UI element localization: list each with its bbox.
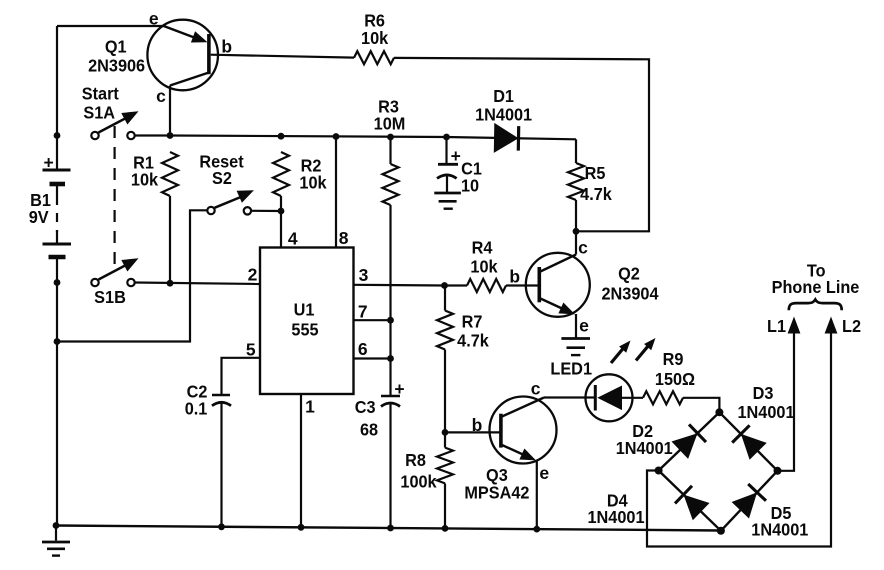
svg-text:1N4001: 1N4001 (475, 104, 532, 124)
svg-text:9V: 9V (29, 207, 49, 227)
svg-text:+: + (394, 379, 404, 399)
svg-text:0.1: 0.1 (185, 398, 208, 418)
svg-text:R4: R4 (472, 237, 493, 257)
svg-text:Q1: Q1 (105, 37, 127, 57)
svg-text:b: b (221, 37, 232, 57)
svg-text:7: 7 (358, 301, 368, 321)
svg-text:5: 5 (246, 340, 256, 360)
svg-text:S2: S2 (212, 168, 232, 188)
svg-text:e: e (579, 315, 589, 335)
svg-text:100k: 100k (400, 471, 436, 491)
svg-text:6: 6 (358, 339, 368, 359)
svg-text:555: 555 (291, 320, 318, 340)
svg-text:68: 68 (360, 419, 378, 439)
svg-text:10k: 10k (299, 172, 326, 192)
svg-text:L2: L2 (842, 316, 861, 336)
svg-text:S1B: S1B (94, 287, 126, 307)
svg-text:1N4001: 1N4001 (738, 402, 795, 422)
svg-text:R9: R9 (663, 349, 684, 369)
svg-text:2N3906: 2N3906 (88, 56, 145, 76)
svg-text:R8: R8 (405, 450, 426, 470)
svg-text:C3: C3 (355, 397, 376, 417)
svg-text:1N4001: 1N4001 (751, 520, 808, 540)
svg-text:S1A: S1A (83, 102, 115, 122)
svg-text:c: c (531, 378, 541, 398)
svg-text:4.7k: 4.7k (580, 184, 612, 204)
svg-text:D3: D3 (753, 383, 774, 403)
svg-text:10k: 10k (361, 28, 388, 48)
svg-text:e: e (149, 8, 159, 28)
svg-text:10k: 10k (131, 169, 158, 189)
svg-text:D1: D1 (493, 86, 514, 106)
svg-text:3: 3 (359, 265, 369, 285)
svg-text:LED1: LED1 (550, 359, 592, 379)
svg-text:b: b (472, 415, 483, 435)
svg-text:1N4001: 1N4001 (588, 507, 645, 527)
svg-text:U1: U1 (294, 299, 315, 319)
svg-text:10M: 10M (374, 113, 406, 133)
svg-text:e: e (539, 463, 549, 483)
svg-text:4.7k: 4.7k (457, 331, 489, 351)
svg-text:L1: L1 (767, 316, 786, 336)
svg-text:MPSA42: MPSA42 (464, 483, 529, 503)
svg-text:c: c (156, 86, 166, 106)
svg-text:8: 8 (339, 228, 349, 248)
svg-text:2: 2 (248, 264, 258, 284)
svg-text:150Ω: 150Ω (655, 369, 695, 389)
svg-text:R7: R7 (462, 311, 483, 331)
svg-text:Q2: Q2 (618, 263, 640, 283)
svg-text:2N3904: 2N3904 (602, 284, 659, 304)
svg-text:10: 10 (461, 175, 479, 195)
svg-text:1N4001: 1N4001 (616, 438, 673, 458)
svg-text:1: 1 (305, 396, 315, 416)
svg-text:b: b (509, 267, 520, 287)
svg-text:+: + (451, 146, 461, 166)
svg-text:Start: Start (82, 84, 119, 104)
svg-text:Phone Line: Phone Line (772, 277, 860, 297)
svg-text:+: + (43, 152, 53, 172)
svg-text:10k: 10k (470, 257, 497, 277)
svg-text:R5: R5 (585, 163, 606, 183)
svg-text:4: 4 (288, 229, 298, 249)
svg-text:c: c (578, 237, 588, 257)
